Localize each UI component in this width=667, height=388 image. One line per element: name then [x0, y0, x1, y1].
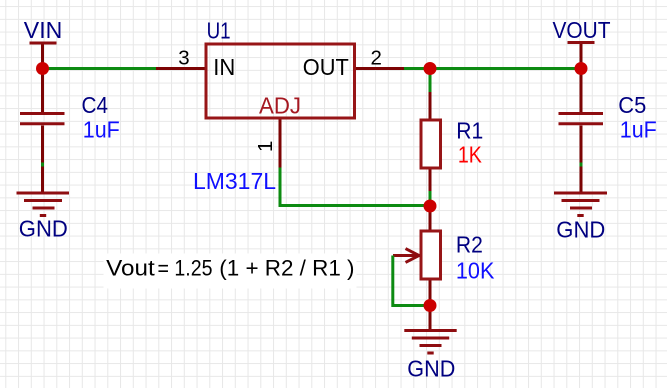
svg-text:OUT: OUT	[303, 54, 349, 80]
svg-text:1K: 1K	[458, 142, 483, 168]
svg-text:IN: IN	[213, 54, 235, 80]
svg-text:R2: R2	[456, 231, 483, 257]
svg-text:1: 1	[254, 141, 277, 152]
svg-text:GND: GND	[556, 216, 605, 242]
svg-text:C4: C4	[82, 92, 109, 118]
svg-text:GND: GND	[407, 355, 455, 381]
svg-text:U1: U1	[207, 17, 231, 43]
svg-text:= 1.25: = 1.25	[158, 256, 213, 281]
svg-text:2: 2	[371, 47, 382, 70]
svg-text:Vout: Vout	[106, 256, 155, 281]
svg-text:R1: R1	[456, 117, 483, 143]
svg-text:LM317L: LM317L	[193, 168, 276, 194]
svg-text:GND: GND	[19, 215, 68, 241]
svg-text:10K: 10K	[456, 258, 495, 284]
svg-text:VIN: VIN	[24, 17, 63, 43]
svg-text:3: 3	[178, 47, 189, 70]
svg-text:(1 + R2 / R1 ): (1 + R2 / R1 )	[219, 256, 354, 281]
svg-text:1uF: 1uF	[620, 116, 657, 142]
svg-text:C5: C5	[618, 92, 646, 118]
svg-text:1uF: 1uF	[83, 116, 120, 142]
svg-text:VOUT: VOUT	[553, 17, 611, 43]
svg-text:ADJ: ADJ	[259, 93, 301, 119]
